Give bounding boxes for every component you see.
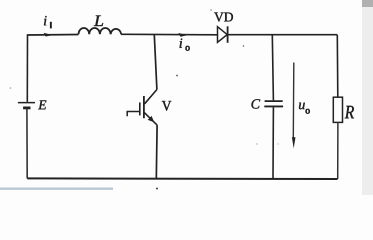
page corner dark square bbox=[362, 0, 373, 7]
wire: left vertical lower bbox=[26, 108, 28, 178]
wire: capacitor branch from top bbox=[272, 35, 273, 101]
label i1 bbox=[44, 16, 47, 25]
label C bbox=[251, 99, 260, 108]
page edge gray band bbox=[362, 0, 373, 195]
wire: right vertical upper bbox=[336, 35, 339, 97]
scan artifact blue line bottom left bbox=[0, 188, 113, 190]
label V bbox=[162, 101, 171, 111]
wire: top left segment bbox=[28, 34, 79, 37]
output voltage arrow uo bbox=[292, 63, 296, 149]
wire: transistor branch from top bbox=[154, 35, 157, 90]
wire: transistor branch to bottom bbox=[155, 125, 158, 179]
capacitor C bottom plate bbox=[264, 105, 283, 107]
label R bbox=[345, 106, 354, 118]
battery E short plate bbox=[23, 107, 30, 110]
wire: right vertical lower bbox=[337, 122, 339, 179]
diode VD bbox=[218, 26, 228, 43]
wire: bottom bbox=[27, 177, 337, 180]
scan speck above VD bbox=[210, 9, 211, 10]
scan speck below diode bbox=[243, 45, 245, 47]
wire: top right segment bbox=[229, 34, 338, 36]
label L bbox=[94, 16, 103, 26]
label uo bbox=[299, 103, 305, 110]
wire: capacitor branch to bottom bbox=[272, 107, 274, 178]
label E bbox=[38, 100, 46, 109]
wire: left vertical upper bbox=[26, 34, 28, 102]
scan speck near V bbox=[176, 75, 178, 77]
wire: top middle segment bbox=[121, 33, 217, 36]
IGBT V gate bar bbox=[139, 102, 141, 115]
label io bbox=[180, 39, 183, 48]
scan speck below bottom wire bbox=[156, 188, 158, 190]
IGBT V collector diagonal bbox=[145, 90, 157, 104]
current arrow io bbox=[178, 33, 187, 37]
resistor R body bbox=[333, 97, 342, 122]
scan speck left of battery bbox=[10, 87, 12, 89]
capacitor C top plate bbox=[265, 100, 283, 102]
inductor L bbox=[79, 28, 122, 34]
IGBT V emitter diagonal bbox=[144, 113, 157, 126]
scan speck pair left of capacitor bottom bbox=[256, 143, 257, 144]
label VD bbox=[214, 13, 233, 22]
IGBT V emitter arrowhead bbox=[148, 116, 155, 122]
current arrow i1 bbox=[44, 33, 53, 37]
battery E long plate bbox=[18, 102, 35, 104]
IGBT V main bar bbox=[143, 96, 145, 118]
IGBT V gate lead bbox=[127, 112, 140, 117]
